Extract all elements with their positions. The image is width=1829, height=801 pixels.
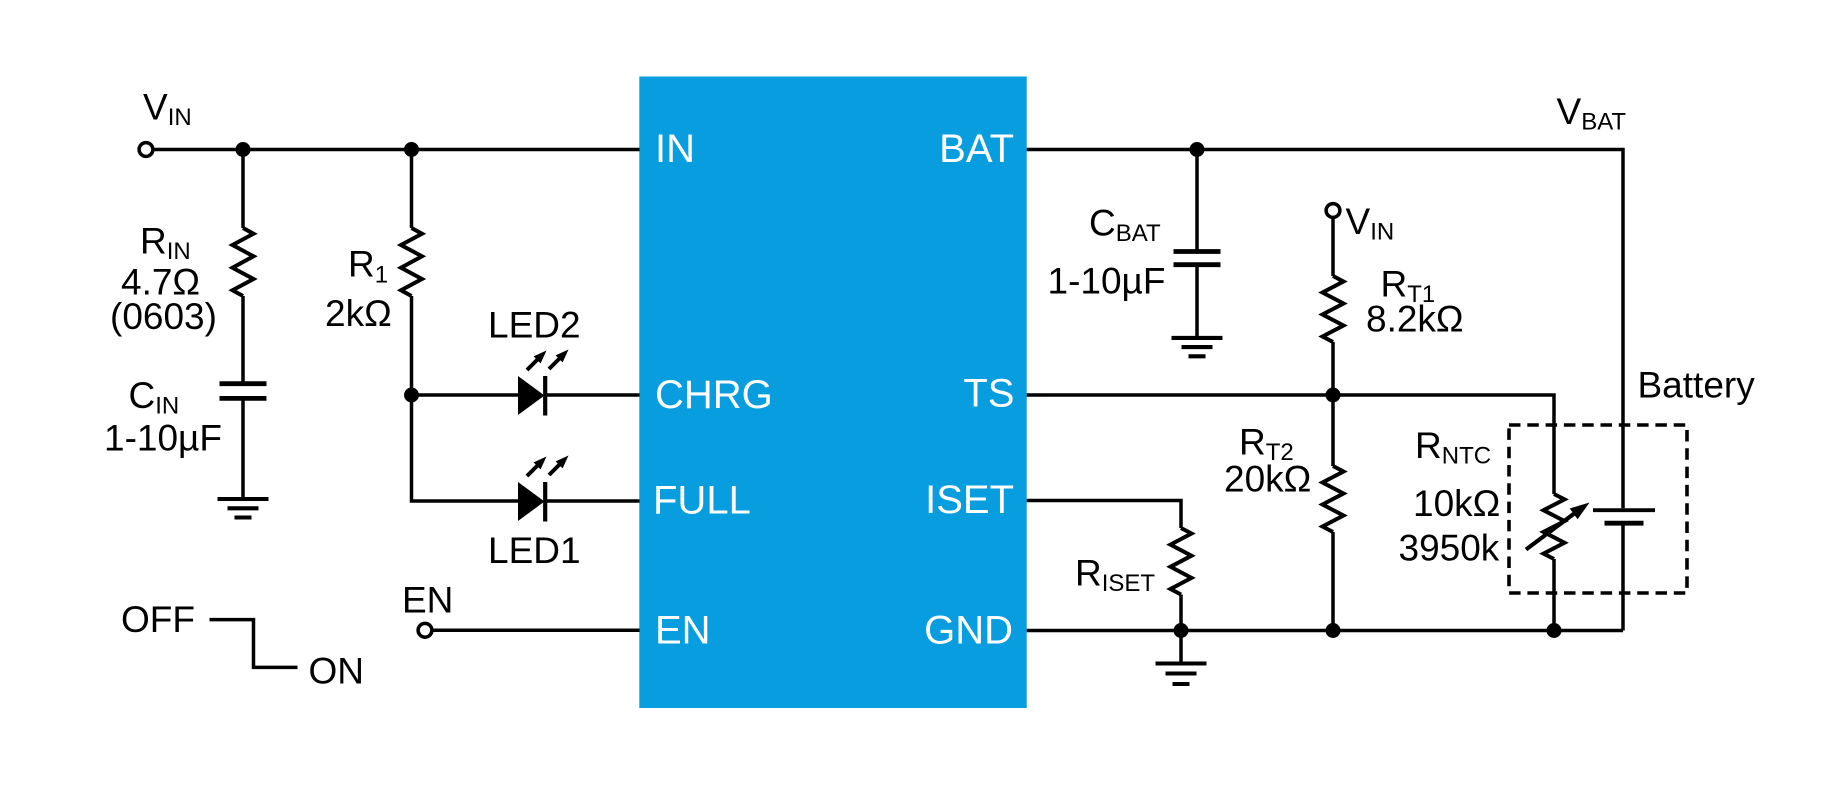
wire RIN branch top (241, 150, 245, 229)
svg-text:TS: TS (963, 372, 1014, 416)
wire RNTC to GND rail (1552, 559, 1556, 631)
wire RISET to GND rail (1179, 595, 1183, 631)
svg-text:CHRG: CHRG (655, 373, 773, 417)
svg-text:EN: EN (402, 580, 453, 621)
svg-text:ISET: ISET (925, 478, 1014, 522)
terminal EN (418, 623, 432, 637)
wire battery bottom (1621, 525, 1625, 631)
svg-text:GND: GND (924, 609, 1013, 653)
battery cell plates (1593, 510, 1655, 523)
svg-text:8.2kΩ: 8.2kΩ (1366, 299, 1464, 340)
svg-text:1-10µF: 1-10µF (1048, 261, 1166, 302)
wire TS to RNTC (1027, 395, 1554, 494)
wire RIN to CIN (241, 296, 245, 384)
wire CBAT to ground (1195, 265, 1199, 338)
wire VIN to IN (153, 148, 640, 152)
wire VIN2 to RT1 (1331, 217, 1335, 276)
thermistor arrow (1526, 503, 1590, 550)
svg-text:1-10µF: 1-10µF (104, 418, 222, 459)
LED1 diode (518, 456, 569, 522)
wire R1 branch top (410, 150, 414, 229)
svg-text:BAT: BAT (939, 127, 1014, 171)
svg-text:FULL: FULL (653, 479, 751, 523)
resistor RIN zigzag (233, 228, 254, 296)
svg-text:EN: EN (655, 609, 711, 653)
wire ISET to RISET (1027, 501, 1181, 529)
svg-text:ON: ON (309, 651, 365, 692)
capacitor CBAT plates (1174, 252, 1221, 265)
wire LED1 to FULL pin (545, 499, 640, 503)
LED2 diode (518, 350, 569, 416)
svg-text:(0603): (0603) (110, 296, 217, 337)
wire BAT rail to VBAT corner (1027, 150, 1623, 509)
terminal VIN right (1326, 204, 1340, 218)
svg-text:LED2: LED2 (488, 305, 581, 346)
ground at CBAT (1172, 338, 1223, 356)
wire GND rail to ground symbol stub (1179, 631, 1183, 664)
resistor RISET zigzag (1171, 528, 1192, 595)
wire TS node to RT2 (1331, 395, 1335, 466)
junction node dots (236, 142, 1562, 638)
wire CIN to ground (241, 398, 245, 499)
svg-text:20kΩ: 20kΩ (1224, 459, 1311, 500)
wire EN to pin (432, 629, 640, 633)
svg-text:10kΩ: 10kΩ (1413, 483, 1500, 524)
wire LED2 to CHRG pin (545, 393, 640, 397)
svg-text:LED1: LED1 (488, 530, 581, 571)
svg-text:3950k: 3950k (1399, 528, 1500, 569)
wire RT1 to TS node (1331, 342, 1335, 395)
svg-text:IN: IN (655, 127, 695, 171)
svg-text:Battery: Battery (1638, 365, 1756, 406)
IC U1 charger block (639, 77, 1026, 709)
resistor R1 zigzag (401, 228, 422, 296)
resistor RT2 zigzag (1323, 466, 1344, 532)
svg-text:OFF: OFF (121, 599, 195, 640)
ground at GND rail (1156, 664, 1207, 685)
wire RT2 to GND rail (1331, 532, 1335, 631)
wire CBAT branch (1195, 150, 1199, 252)
battery dashed outline (1509, 425, 1687, 593)
wire R1 bottom to FULL corner (412, 296, 520, 501)
wire GND rail (1027, 629, 1623, 633)
wire CHRG tee to LED2 (412, 393, 520, 397)
thermistor RNTC zigzag (1544, 494, 1565, 559)
terminal VIN left (139, 143, 153, 157)
capacitor CIN plates (220, 384, 267, 399)
resistor RT1 zigzag (1323, 276, 1344, 342)
svg-text:2kΩ: 2kΩ (325, 293, 392, 334)
ground at CIN (218, 499, 269, 518)
switch OFF-ON step (210, 620, 298, 668)
